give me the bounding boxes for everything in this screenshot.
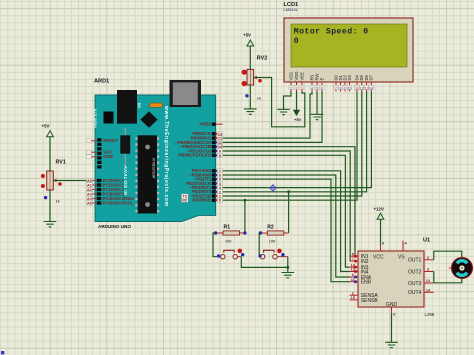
svg-text:SENSB: SENSB <box>361 298 379 304</box>
Arduino right pin headers <box>175 122 223 203</box>
potentiometer RV2 <box>242 55 268 100</box>
svg-text:RV2: RV2 <box>257 55 267 61</box>
svg-text:GND: GND <box>386 302 398 308</box>
node junction buttons gnd <box>286 266 289 269</box>
svg-text:5: 5 <box>316 86 318 90</box>
wire RV2 wiper to LCD VEE <box>254 78 305 127</box>
svg-text:10: 10 <box>348 86 352 90</box>
node junction R1 <box>243 199 246 202</box>
svg-text:2: 2 <box>427 256 429 260</box>
svg-text:7: 7 <box>335 86 337 90</box>
svg-text:OUT1: OUT1 <box>408 258 422 264</box>
node junction R2 <box>287 190 290 193</box>
LCD LCD1 labels <box>284 2 299 12</box>
motor driver U1 L298 <box>350 237 435 316</box>
svg-text:PC5/ADC5/SCL: PC5/ADC5/SCL <box>103 201 134 206</box>
origin marker <box>1 351 4 354</box>
svg-text:PD0/RXD: PD0/RXD <box>192 198 211 203</box>
push button 2 <box>258 249 287 259</box>
svg-text:1: 1 <box>290 86 292 90</box>
svg-text:AREF: AREF <box>199 122 211 127</box>
svg-text:E: E <box>319 78 324 81</box>
Arduino left pin headers <box>86 138 134 205</box>
svg-text:12: 12 <box>360 86 364 90</box>
wire D7 net <box>223 92 372 188</box>
wire D5 net <box>223 92 362 197</box>
wire IN2 net <box>223 151 351 261</box>
wire R1 left to button1 <box>213 233 221 257</box>
svg-text:ARDUINO UNO: ARDUINO UNO <box>98 224 131 229</box>
svg-text:1k: 1k <box>56 198 60 203</box>
svg-text:1k: 1k <box>257 96 261 101</box>
wire RV1 wiper to A0 <box>53 180 86 182</box>
svg-text:9: 9 <box>344 86 346 90</box>
wire LCD RW to ground <box>316 92 318 115</box>
svg-text:D7: D7 <box>369 74 374 80</box>
svg-text:3: 3 <box>427 268 429 272</box>
LCD display LCD1 LM044L <box>284 18 413 82</box>
push button 1 <box>217 249 244 259</box>
svg-text:A2: A2 <box>87 188 92 192</box>
svg-text:OUT3: OUT3 <box>408 281 422 287</box>
svg-text:ARD1: ARD1 <box>94 79 109 85</box>
svg-text:6: 6 <box>352 273 354 277</box>
svg-text:ENB: ENB <box>361 280 372 286</box>
LCD pin stubs and number boxes <box>289 82 373 92</box>
svg-text:0: 0 <box>294 37 299 46</box>
svg-text:3: 3 <box>301 86 303 90</box>
svg-text:VSS: VSS <box>288 72 293 81</box>
svg-text:+12V: +12V <box>374 207 384 212</box>
svg-text:13: 13 <box>426 279 430 283</box>
svg-text:PB0/ICP1/CLKO: PB0/ICP1/CLKO <box>179 153 212 158</box>
svg-text:www.TheEngineeringProjects.com: www.TheEngineeringProjects.com <box>163 105 169 207</box>
svg-text:R2: R2 <box>267 225 274 231</box>
svg-text:ON: ON <box>138 102 142 108</box>
wire R1 drop <box>244 200 246 233</box>
svg-text:+5V: +5V <box>243 32 251 37</box>
wire E net <box>223 92 322 143</box>
svg-text:15: 15 <box>351 296 355 300</box>
wire IN3 net <box>223 155 350 267</box>
svg-text:14: 14 <box>370 86 374 90</box>
wire IN4 net <box>223 171 350 272</box>
wire RV2 bottom + ground <box>249 85 251 109</box>
resistor R2 <box>259 225 289 244</box>
svg-text:VS: VS <box>398 255 405 261</box>
svg-text:RV1: RV1 <box>56 159 66 165</box>
wire R2 left to button2 <box>259 233 260 257</box>
svg-text:Motor Speed: 0: Motor Speed: 0 <box>294 27 369 37</box>
svg-text:10K: 10K <box>225 239 232 243</box>
wire D4 net <box>223 92 357 201</box>
svg-text:ATMEGA328P: ATMEGA328P <box>152 158 156 179</box>
ground buttons <box>287 267 289 272</box>
svg-text:D3: D3 <box>347 74 352 80</box>
wire IN1 net <box>223 147 355 257</box>
DC motor <box>449 258 473 279</box>
svg-text:OUT2: OUT2 <box>408 269 422 275</box>
wire RS net <box>223 92 312 139</box>
svg-text:1: 1 <box>352 291 354 295</box>
svg-text:+5V: +5V <box>42 123 50 128</box>
svg-text:IN2: IN2 <box>361 259 369 265</box>
wire U1 GND to ground <box>391 312 393 342</box>
svg-text:+5V: +5V <box>294 117 302 122</box>
svg-text:13: 13 <box>365 86 369 90</box>
svg-text:U1: U1 <box>423 237 430 243</box>
svg-text:4: 4 <box>311 86 313 90</box>
svg-text:LM044L: LM044L <box>284 7 299 12</box>
svg-text:VDD: VDD <box>294 72 299 81</box>
svg-text:5: 5 <box>352 252 354 256</box>
svg-text:10K: 10K <box>269 239 276 243</box>
svg-text:A5: A5 <box>87 202 92 206</box>
power +5V RV2 <box>243 32 254 69</box>
node marker blue cross <box>270 185 276 191</box>
svg-text:RESET: RESET <box>103 138 118 143</box>
svg-text:8: 8 <box>340 86 342 90</box>
power +5V RV1 <box>42 123 54 171</box>
svg-text:A3: A3 <box>87 193 92 197</box>
svg-text:RX: RX <box>182 199 187 203</box>
svg-text:0: 0 <box>219 198 221 203</box>
svg-text:2: 2 <box>296 86 298 90</box>
wire LCD VSS to ground <box>284 92 292 110</box>
svg-text:OUT4: OUT4 <box>408 290 422 296</box>
svg-text:7: 7 <box>352 257 354 261</box>
wire D6 net <box>223 92 367 192</box>
svg-text:A0: A0 <box>87 179 92 183</box>
svg-text:R1: R1 <box>224 225 231 231</box>
svg-text:VCC: VCC <box>373 255 384 261</box>
potentiometer RV1 <box>41 159 66 203</box>
svg-text:L298: L298 <box>425 312 435 317</box>
wire buttons to ground <box>241 257 287 268</box>
wire R2 drop <box>288 192 290 233</box>
wire ENA net <box>223 175 350 277</box>
svg-text:11: 11 <box>355 86 359 90</box>
wire ENB net <box>223 179 350 282</box>
Arduino UNO module ARD1 <box>93 79 215 230</box>
power +12V U1 VCC <box>374 207 384 246</box>
svg-text:9: 9 <box>382 242 384 246</box>
power +5V LCD VDD <box>296 92 298 111</box>
svg-text:6: 6 <box>321 86 323 90</box>
resistor R1 <box>214 225 247 244</box>
svg-text:GND: GND <box>103 154 113 159</box>
svg-text:VEE: VEE <box>299 72 304 81</box>
wire OUT2/OUT3 to motor bottom <box>434 272 462 283</box>
wire RV1 bottom + ground <box>49 190 51 222</box>
svg-text:A1: A1 <box>87 184 92 188</box>
svg-text:8: 8 <box>393 312 395 316</box>
svg-text:Reset BTN: Reset BTN <box>93 108 97 127</box>
wire OUT1 to motor top <box>434 251 462 260</box>
